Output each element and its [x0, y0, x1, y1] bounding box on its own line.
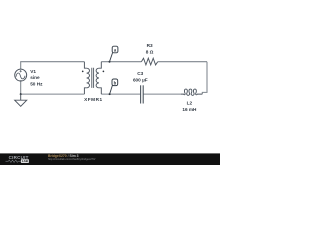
node a junction [109, 61, 111, 63]
wire top rail right (XFMR1 secondary to R3) [101, 61, 141, 63]
svg-text:sine: sine [30, 75, 40, 80]
voltage source V1 minus [20, 80, 22, 82]
svg-text:XFMR1: XFMR1 [84, 97, 103, 102]
svg-text:L2: L2 [187, 101, 193, 106]
transformer XFMR1 secondary winding [96, 68, 99, 88]
svg-text:BridgeX270 / Sim 3: BridgeX270 / Sim 3 [48, 154, 79, 158]
svg-text:600 µF: 600 µF [133, 78, 148, 83]
wire top rail left (V1 to XFMR1 primary) [21, 62, 85, 69]
ground [15, 94, 27, 106]
node junction at V1/ground [20, 93, 22, 95]
voltage source V1 circle [15, 69, 27, 81]
svg-text:16 mH: 16 mH [182, 107, 197, 112]
svg-text:8 Ω: 8 Ω [146, 50, 154, 55]
svg-text:LAB: LAB [22, 159, 29, 163]
svg-text:V1: V1 [30, 69, 36, 74]
footer bar [0, 153, 220, 165]
transformer XFMR1 secondary terminal top [99, 62, 101, 68]
wire bottom rail (C3 to L2) [143, 93, 181, 95]
transformer XFMR1 primary winding [87, 68, 90, 88]
node a balloon [112, 46, 118, 53]
node b balloon [112, 79, 118, 86]
voltage source V1 sine [16, 73, 25, 79]
node a stem [110, 53, 113, 62]
resistor R3 [141, 58, 157, 65]
svg-text:C3: C3 [137, 71, 143, 76]
transformer XFMR1 secondary dot [103, 71, 105, 73]
node b stem [110, 85, 113, 94]
transformer XFMR1 primary dot [82, 71, 84, 73]
footer logo LAB box [21, 159, 29, 163]
node b junction [109, 93, 111, 95]
svg-text:b: b [114, 80, 117, 85]
transformer XFMR1 primary terminal bottom [84, 88, 86, 94]
capacitor C3 plate left [140, 85, 142, 103]
transformer XFMR1 secondary terminal bottom [99, 88, 101, 94]
capacitor C3 plate right [142, 85, 144, 103]
svg-text:R3: R3 [147, 43, 153, 48]
inductor L2 [181, 89, 202, 95]
svg-text:50 Hz: 50 Hz [30, 81, 43, 86]
svg-text:http://circuitlab.com/c/6ad9ry: http://circuitlab.com/c/6ad9ry/bridgex27… [48, 157, 96, 161]
footer logo wire motif [6, 160, 21, 163]
wire bottom rail (XFMR1 secondary to C3) [101, 93, 140, 95]
transformer XFMR1 primary terminal top [84, 62, 86, 68]
wire right vertical [202, 62, 207, 94]
transformer XFMR1 core [92, 68, 94, 88]
wire top rail right of R3 [158, 61, 207, 63]
wire bottom rail left (V1 to XFMR1 primary) [21, 81, 85, 94]
voltage source V1 plus [20, 70, 22, 72]
